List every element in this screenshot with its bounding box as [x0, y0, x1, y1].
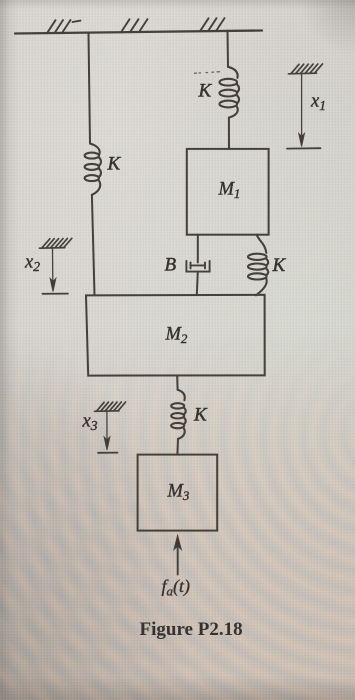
- wire: spring K4 to M3: [176, 439, 179, 455]
- x1 reference line: [287, 147, 321, 149]
- mass M1: [187, 149, 269, 235]
- mass M2: [86, 295, 265, 376]
- svg-text:M2: M2: [165, 325, 188, 347]
- displacement arrow x3: [104, 412, 110, 451]
- spring K4 (M2 to M3): [171, 390, 186, 439]
- wire: M2 to spring K4: [176, 376, 178, 390]
- displacement arrow x1: [299, 74, 305, 147]
- svg-text:M1: M1: [218, 180, 241, 202]
- spring K3 (M1 to M2): [248, 235, 268, 296]
- spring K2 (above M1): [220, 67, 240, 118]
- wire: damper to M2: [197, 272, 198, 295]
- svg-text:x2: x2: [24, 253, 40, 275]
- svg-text:fa(t): fa(t): [162, 576, 191, 599]
- wire: rod ceiling to spring K2: [227, 31, 230, 67]
- svg-text:K: K: [193, 405, 208, 426]
- wire: M1 to damper piston: [197, 235, 199, 263]
- svg-text:x3: x3: [82, 412, 98, 434]
- damper B: [186, 261, 209, 272]
- wire: rod spring K2 to M1: [228, 118, 230, 149]
- svg-text:B: B: [165, 255, 177, 276]
- wire: left rod spring K1 to M2: [92, 195, 95, 295]
- force arrow fa(t): [174, 536, 181, 575]
- svg-text:K: K: [107, 154, 122, 175]
- ceiling hatch group 3: [200, 18, 225, 31]
- wire: left rod ceiling to spring K1: [89, 34, 91, 144]
- ceiling line: [15, 31, 262, 34]
- mass M3: [138, 455, 218, 531]
- x2 reference line: [43, 293, 69, 295]
- spring K1 (left, ceiling to M2): [85, 144, 101, 195]
- x3 support hatched wall: [95, 402, 126, 411]
- x1 support hatched wall: [289, 64, 323, 74]
- svg-text:K: K: [272, 255, 287, 276]
- x2 support hatched wall: [40, 238, 72, 248]
- displacement arrow x2: [50, 249, 56, 292]
- svg-text:Figure P2.18: Figure P2.18: [140, 619, 243, 640]
- x3 reference line: [98, 452, 118, 454]
- svg-text:M3: M3: [167, 482, 190, 504]
- svg-text:x1: x1: [310, 92, 326, 114]
- svg-text:K: K: [198, 81, 213, 102]
- ceiling hatch group 2: [121, 19, 148, 32]
- ceiling hatch group 1: [47, 20, 81, 33]
